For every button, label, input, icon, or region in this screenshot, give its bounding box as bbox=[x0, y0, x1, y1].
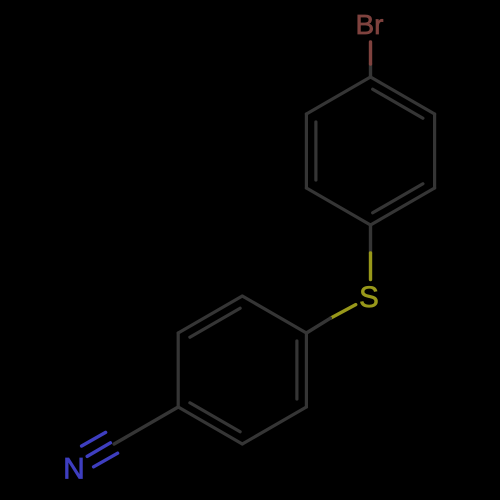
svg-text:N: N bbox=[63, 453, 85, 486]
wire: ring1 edge LL-UL bbox=[305, 114, 308, 188]
bond C-S carbon half (vertical) bbox=[369, 225, 372, 253]
bond S-C(ring2) carbon half bbox=[306, 318, 330, 333]
wire: ring2 double bond inner line R bbox=[295, 341, 298, 399]
wire: ring1 edge T-UR bbox=[371, 77, 435, 114]
svg-text:S: S bbox=[359, 281, 379, 314]
ring 1 (bromophenyl) outer edges bbox=[306, 77, 434, 225]
wire: ring1 edge B-LL bbox=[306, 188, 370, 225]
wire: ring1 edge UR-LR bbox=[433, 114, 436, 188]
bond C-S sulfur half (vertical) bbox=[369, 253, 372, 280]
wire: ring2 edge T-UR bbox=[242, 296, 306, 333]
wire: ring2 edge LL-UL bbox=[177, 333, 180, 407]
wire: ring1 edge UL-T bbox=[306, 77, 370, 114]
bond C-Br carbon half bbox=[369, 64, 372, 77]
wire: ring1 double bond inner line BR bbox=[373, 184, 423, 213]
bond C(ring2)-C(nitrile) bbox=[114, 407, 178, 444]
wire: ring2 edge B-LL bbox=[178, 407, 242, 444]
triple bond C#N line middle bbox=[87, 443, 110, 457]
svg-text:Br: Br bbox=[356, 9, 384, 40]
wire: ring2 edge UR-LR bbox=[305, 333, 308, 407]
wire: ring1 edge LR-B bbox=[371, 188, 435, 225]
wire: ring2 edge UL-T bbox=[178, 296, 242, 333]
triple bond C#N line upper bbox=[82, 432, 106, 446]
bond S-C(ring2) sulfur half bbox=[330, 305, 355, 319]
wire: ring1 double bond inner line L bbox=[314, 122, 317, 180]
wire: ring2 double bond inner line TL bbox=[190, 308, 240, 337]
triple bond C#N line lower bbox=[94, 453, 118, 467]
wire: ring2 double bond inner line BL bbox=[190, 403, 240, 432]
bond C-Br bromine half bbox=[369, 42, 372, 64]
wire: ring1 double bond inner line TR bbox=[373, 89, 423, 118]
wire: ring2 edge LR-B bbox=[242, 407, 306, 444]
ring 2 (benzonitrile ring) outer edges bbox=[178, 296, 306, 444]
